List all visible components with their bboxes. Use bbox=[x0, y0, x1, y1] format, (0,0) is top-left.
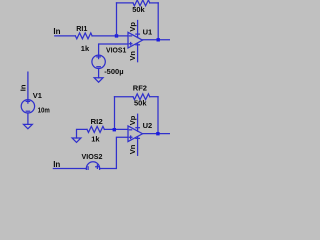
wire top rail right (stage 2) bbox=[150, 96, 158, 98]
ground (below V1) bbox=[24, 124, 33, 128]
plus mark V+ pin U2 bbox=[136, 127, 140, 129]
svg-text:Vn: Vn bbox=[128, 51, 137, 61]
resistor RF2 bbox=[133, 94, 150, 100]
wire U2 output bbox=[143, 133, 171, 135]
wire top rail left (stage 1) bbox=[117, 2, 134, 4]
wire RI2 to U2 inverting input bbox=[104, 128, 128, 130]
minus mark U1 inverting input bbox=[129, 35, 131, 37]
wire U1 output bbox=[143, 39, 171, 41]
voltage source VIOS1 bbox=[92, 55, 105, 68]
pin V- wire U1 bbox=[137, 43, 139, 62]
svg-text:RI2: RI2 bbox=[91, 117, 103, 126]
junction at U1 output bbox=[157, 38, 160, 41]
wire V1 to ground bbox=[27, 113, 29, 124]
plus mark V+ pin U1 bbox=[136, 33, 140, 35]
svg-text:In: In bbox=[53, 27, 60, 36]
svg-text:V1: V1 bbox=[33, 91, 42, 100]
svg-text:RF2: RF2 bbox=[133, 83, 147, 92]
junction at U1 inverting input bbox=[115, 34, 118, 37]
pin V+ wire U1 bbox=[137, 21, 139, 38]
plus mark U1 non-inverting input bbox=[129, 42, 132, 45]
wire top rail left (stage 2) bbox=[115, 96, 134, 98]
voltage source V1 bbox=[21, 100, 34, 113]
svg-text:50k: 50k bbox=[134, 99, 147, 108]
wire VIOS1 to U1 non-inverting input bbox=[99, 44, 128, 55]
svg-text:U1: U1 bbox=[143, 28, 153, 37]
wire feedback tap up (stage 2) bbox=[114, 97, 116, 130]
svg-text:RI1: RI1 bbox=[76, 24, 87, 33]
resistor RI1 bbox=[75, 33, 92, 39]
wire VIOS1 to ground bbox=[98, 69, 100, 78]
wire feedback down to U2 output bbox=[157, 97, 159, 134]
svg-text:VIOS1: VIOS1 bbox=[106, 46, 126, 55]
ground (at RI2 input) bbox=[72, 138, 81, 142]
svg-text:Vp: Vp bbox=[128, 22, 137, 32]
svg-text:-500µ: -500µ bbox=[104, 67, 123, 76]
op-amp U2 bbox=[128, 114, 143, 155]
junction at U2 inverting input bbox=[113, 128, 116, 131]
op-amp U1 bbox=[128, 21, 143, 62]
svg-text:1k: 1k bbox=[81, 44, 90, 53]
voltage source VIOS2 bbox=[86, 162, 99, 175]
resistor RF1 bbox=[133, 0, 150, 6]
plus mark U2 non-inverting input bbox=[129, 136, 132, 139]
wire feedback tap up (stage 1) bbox=[116, 3, 118, 36]
svg-text:In: In bbox=[53, 160, 60, 169]
wire RI1 to U1 inverting input bbox=[92, 35, 128, 37]
wire VIOS2 to U2 non-inverting input bbox=[100, 137, 128, 168]
pin V- wire U2 bbox=[137, 137, 139, 156]
minus mark V- pin U2 bbox=[136, 137, 140, 139]
svg-text:VIOS2: VIOS2 bbox=[82, 152, 103, 161]
svg-text:Vn: Vn bbox=[128, 144, 137, 154]
svg-text:U2: U2 bbox=[143, 121, 153, 130]
svg-text:1k: 1k bbox=[91, 134, 100, 143]
minus mark V- pin U1 bbox=[136, 44, 140, 46]
minus mark U2 inverting input bbox=[129, 129, 131, 131]
wire In to RI1 bbox=[55, 35, 76, 37]
wire feedback down to U1 output bbox=[157, 3, 159, 40]
wire ground up to RI2 bbox=[77, 129, 88, 138]
svg-text:50k: 50k bbox=[132, 5, 145, 14]
resistor RI2 bbox=[87, 126, 104, 132]
svg-text:Vp: Vp bbox=[128, 115, 137, 125]
ground (below VIOS1) bbox=[94, 78, 103, 82]
wire V1 top bbox=[27, 72, 29, 100]
wire top rail right (stage 1) bbox=[150, 2, 159, 4]
wire In to VIOS2 bbox=[53, 168, 86, 170]
pin V+ wire U2 bbox=[137, 114, 139, 131]
svg-text:10m: 10m bbox=[38, 105, 50, 114]
junction at U2 output bbox=[156, 132, 159, 135]
svg-text:In: In bbox=[19, 84, 28, 91]
